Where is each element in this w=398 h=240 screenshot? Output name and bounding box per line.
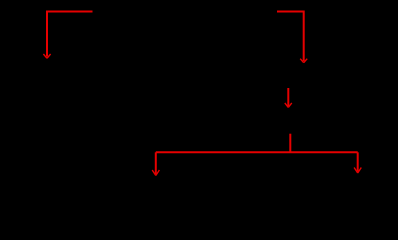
arrow A4: bottom-left drop arrow from rail <box>152 152 159 175</box>
stub: short vertical connector above bottom horizontal rail <box>289 134 291 153</box>
arrow A1: top-left L-shaped arrow (bends left then down) <box>43 12 92 59</box>
arrow A3: short middle vertical arrow <box>285 88 292 107</box>
wire: bottom horizontal rail <box>156 151 358 153</box>
arrow A5: bottom-right drop arrow from rail <box>354 152 361 173</box>
arrow A2: top-right L-shaped arrow (bends right then down) <box>277 12 307 63</box>
